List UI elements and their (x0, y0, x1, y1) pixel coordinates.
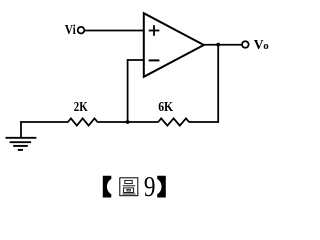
resistor 6K (158, 118, 189, 125)
svg-text:V: V (254, 37, 264, 52)
wire 6K to output drop (189, 121, 219, 123)
wire - input to feedback node (127, 59, 144, 61)
terminal Vo (242, 41, 249, 48)
op-amp U1 (144, 13, 204, 77)
svg-text:6K: 6K (158, 99, 173, 114)
svg-text:o: o (263, 40, 269, 52)
op-amp - input symbol (149, 59, 160, 61)
op-amp + input symbol (149, 25, 160, 36)
wire feedback vertical (127, 59, 129, 122)
node feedback junction (126, 120, 130, 124)
wire 2K to 6K with junction (97, 121, 158, 123)
wire output from apex (204, 44, 242, 46)
wire output vertical drop (217, 45, 219, 122)
caption bracket left (103, 176, 112, 198)
caption glyph 圖 (figure) (120, 178, 138, 196)
terminal Vi (78, 27, 85, 34)
node output junction (216, 43, 220, 47)
wire ground to 2K (20, 121, 68, 123)
wire Vi to op-amp + input (85, 30, 144, 32)
caption bracket right (157, 176, 166, 198)
svg-text:9: 9 (144, 172, 156, 203)
svg-text:2K: 2K (74, 99, 88, 114)
svg-text:Vi: Vi (65, 22, 76, 37)
resistor 2K (68, 118, 98, 125)
ground (6, 121, 37, 150)
